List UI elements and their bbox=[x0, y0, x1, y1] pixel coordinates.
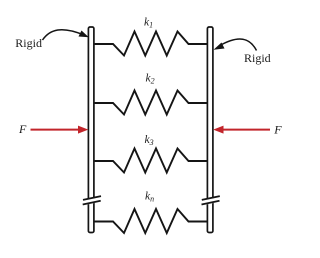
left break slash 1 bbox=[83, 196, 101, 200]
right rigid arrowhead bbox=[214, 43, 225, 50]
left force arrow line bbox=[31, 129, 81, 131]
left force arrowhead bbox=[78, 126, 88, 134]
right break slash 1 bbox=[202, 196, 220, 200]
svg-text:F: F bbox=[273, 122, 282, 136]
svg-text:k3: k3 bbox=[145, 134, 154, 147]
svg-text:Rigid: Rigid bbox=[244, 51, 271, 65]
left break slash 2 bbox=[83, 201, 101, 205]
svg-text:F: F bbox=[18, 122, 27, 136]
right rigid pointer curve bbox=[219, 39, 257, 50]
spring k1 bbox=[95, 32, 207, 56]
right rigid bar bbox=[207, 27, 213, 233]
left rigid bar bbox=[88, 27, 94, 233]
left bar break gap bbox=[87, 198, 97, 205]
right break slash 2 bbox=[202, 201, 220, 205]
left rigid pointer curve bbox=[43, 30, 85, 40]
spring k3 bbox=[95, 149, 207, 173]
svg-text:kn: kn bbox=[145, 191, 154, 204]
right bar break gap bbox=[206, 198, 216, 205]
right force arrow line bbox=[222, 129, 271, 131]
left rigid arrowhead bbox=[79, 31, 89, 38]
svg-text:k1: k1 bbox=[144, 17, 153, 30]
spring kn bbox=[95, 209, 207, 233]
svg-text:Rigid: Rigid bbox=[15, 36, 42, 50]
spring k2 bbox=[95, 91, 207, 115]
svg-text:k2: k2 bbox=[146, 73, 155, 86]
right force arrowhead bbox=[213, 126, 223, 134]
